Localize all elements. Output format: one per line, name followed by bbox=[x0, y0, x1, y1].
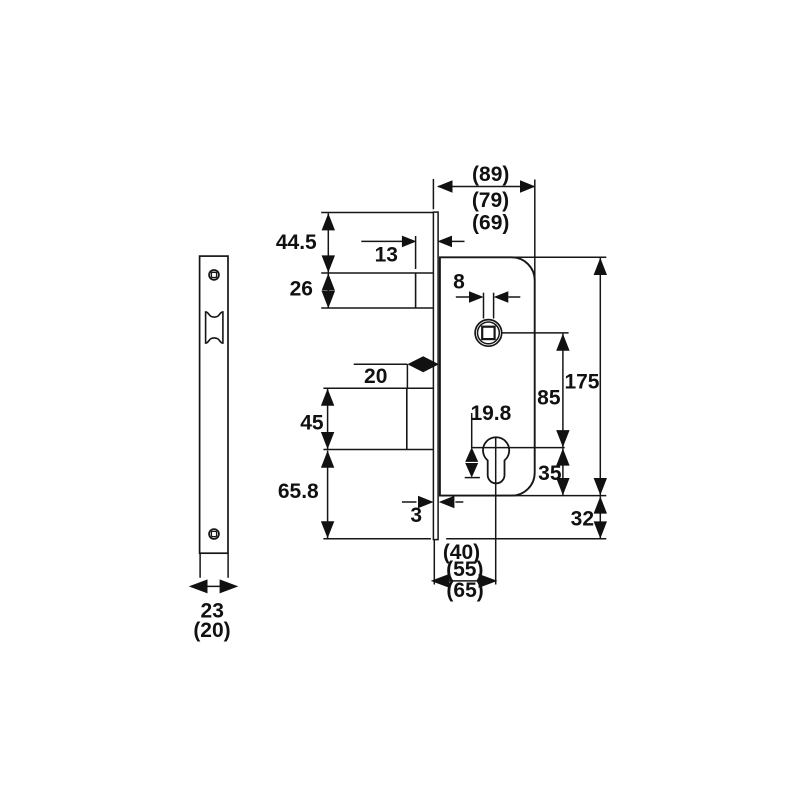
dimension 26 bbox=[322, 273, 335, 308]
svg-text:(55): (55) bbox=[446, 558, 483, 581]
label (89) bbox=[472, 163, 509, 186]
label 35 bbox=[538, 462, 562, 485]
label 20 bbox=[364, 365, 387, 388]
svg-text:(20): (20) bbox=[193, 619, 230, 642]
svg-text:45: 45 bbox=[300, 411, 324, 434]
label 32 bbox=[571, 508, 594, 531]
label (55) bbox=[446, 558, 483, 581]
body top extension line to 175 bbox=[500, 256, 606, 258]
dimension (89) bbox=[437, 180, 536, 192]
svg-text:44.5: 44.5 bbox=[276, 231, 317, 254]
svg-text:175: 175 bbox=[564, 371, 599, 394]
dimension 85 bbox=[556, 334, 569, 448]
dimension 35 bbox=[556, 448, 569, 495]
svg-text:8: 8 bbox=[453, 271, 465, 294]
svg-text:(65): (65) bbox=[446, 579, 483, 602]
label (79) bbox=[472, 189, 509, 212]
svg-text:13: 13 bbox=[375, 243, 398, 266]
dimension 65.8 bbox=[321, 451, 334, 539]
dimension 44.5 bbox=[322, 213, 335, 272]
label 3 bbox=[410, 504, 422, 527]
deadbolt bbox=[406, 388, 408, 449]
screw hole bottom bbox=[209, 529, 219, 539]
screw hole top bbox=[209, 270, 219, 280]
label 85 bbox=[537, 387, 561, 410]
dimension 19.8 bbox=[465, 413, 480, 478]
label (69) bbox=[472, 211, 509, 234]
label 44.5 bbox=[276, 231, 317, 254]
dimension 45 bbox=[321, 389, 334, 450]
svg-text:3: 3 bbox=[410, 504, 422, 527]
latch cutout bbox=[206, 312, 223, 343]
label 19.8 bbox=[470, 402, 511, 425]
svg-text:19.8: 19.8 bbox=[470, 402, 511, 425]
label 45 bbox=[300, 411, 324, 434]
label 26 bbox=[290, 278, 313, 301]
svg-text:(79): (79) bbox=[472, 189, 509, 212]
spindle hub bbox=[475, 320, 502, 347]
label 175 bbox=[564, 371, 599, 394]
13 extension line bbox=[415, 236, 417, 269]
label 13 bbox=[375, 243, 398, 266]
svg-text:65.8: 65.8 bbox=[278, 480, 319, 503]
latch bottom extension line bbox=[321, 307, 433, 309]
label (65) bbox=[446, 579, 483, 602]
svg-text:26: 26 bbox=[290, 278, 313, 301]
label 23 bbox=[201, 600, 224, 623]
faceplate extension lines bbox=[200, 553, 228, 578]
latch bolt bbox=[415, 273, 417, 308]
deadbolt bottom extension line bbox=[323, 449, 434, 451]
dimension 3 bbox=[402, 496, 463, 508]
faceplate front view bbox=[200, 256, 228, 553]
dimension 13 bbox=[361, 236, 464, 248]
svg-text:85: 85 bbox=[537, 387, 561, 410]
svg-text:(69): (69) bbox=[472, 211, 509, 234]
label (40) bbox=[443, 541, 480, 564]
spindle center line bbox=[502, 332, 569, 334]
dimension 23 arrow bbox=[189, 579, 239, 593]
latch top extension line bbox=[321, 272, 433, 274]
label 65.8 bbox=[278, 480, 319, 503]
dimension 175 bbox=[594, 258, 607, 495]
label (20) bbox=[193, 619, 230, 642]
dimension (40)(55)(65) arrows bbox=[431, 574, 498, 588]
lock body bbox=[440, 257, 535, 495]
deadbolt top extension line bbox=[323, 387, 434, 389]
svg-text:20: 20 bbox=[364, 365, 387, 388]
dimension 8 bbox=[456, 291, 521, 318]
cylinder vertical line bbox=[495, 437, 497, 584]
dimension 32 bbox=[594, 496, 607, 538]
lock faceplate strip side view bbox=[431, 212, 446, 540]
svg-text:32: 32 bbox=[571, 508, 594, 531]
svg-text:35: 35 bbox=[538, 462, 562, 485]
dimension 20 bbox=[354, 356, 439, 388]
euro cylinder hole bbox=[483, 437, 509, 483]
label 8 bbox=[453, 271, 465, 294]
cylinder center line bbox=[471, 447, 565, 449]
(89) right extension line bbox=[534, 180, 536, 282]
(65) left extension line bbox=[433, 540, 435, 585]
(89) left extension line bbox=[432, 179, 434, 209]
body bottom extension line to 175/32 bbox=[500, 495, 606, 497]
bottom horizontal line y=538.8 bbox=[323, 538, 606, 540]
svg-text:(89): (89) bbox=[472, 163, 509, 186]
strip top extension line bbox=[321, 212, 433, 214]
